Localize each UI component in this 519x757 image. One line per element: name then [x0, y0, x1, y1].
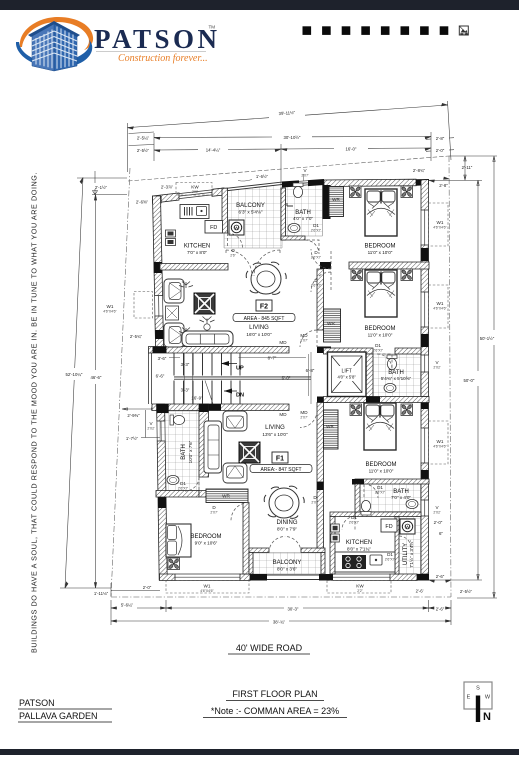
svg-text:2'6"X7': 2'6"X7': [311, 284, 322, 288]
carpet F1: [239, 442, 260, 463]
svg-text:7'1½" x 3'4½": 7'1½" x 3'4½": [408, 540, 414, 568]
svg-text:2'X7': 2'X7': [300, 416, 308, 420]
site boundary top: [128, 156, 449, 181]
bath F1 right door: [364, 484, 378, 498]
corridor wall piers at stair band: [317, 347, 331, 354]
bath F1 right left wall: [355, 484, 360, 512]
right vertical dim 50'-1.5: [457, 156, 497, 598]
logo blue swoosh: [16, 40, 92, 68]
svg-text:BUILDINGS DO HAVE A SOUL, THAT: BUILDINGS DO HAVE A SOUL, THAT COULD RES…: [30, 172, 39, 653]
kitchen F2 door O: [228, 233, 243, 248]
svg-text:PATSON: PATSON: [19, 698, 55, 708]
bath F1 right: bottom wall y514: [355, 512, 421, 517]
right side small dims: [434, 520, 444, 536]
svg-text:KITCHEN: KITCHEN: [346, 540, 372, 546]
svg-text:D1: D1: [377, 485, 383, 490]
kitchen F1 FD: [381, 519, 397, 532]
balcony F2 tiles: [224, 185, 282, 249]
top right corner black: [416, 179, 429, 186]
svg-text:8'-7": 8'-7": [268, 356, 277, 361]
svg-text:3'-3": 3'-3": [181, 388, 190, 393]
right dim 2'-11: [428, 156, 497, 181]
toilet bath F1 right: [361, 500, 371, 515]
svg-text:D1: D1: [180, 481, 186, 486]
svg-text:S: S: [476, 686, 480, 692]
wardrobes WR vertical: [329, 187, 344, 217]
svg-text:BEDROOM: BEDROOM: [364, 244, 395, 250]
svg-text:30'-3": 30'-3": [288, 607, 299, 612]
svg-text:AREA:- 847 SQFT: AREA:- 847 SQFT: [260, 467, 301, 473]
bath F2 door D1: [305, 240, 319, 254]
utility F1 tiles: [399, 517, 421, 575]
bed bedroom2: [365, 270, 397, 317]
balcony F2 double doors: [226, 250, 252, 276]
svg-text:6'-0": 6'-0": [282, 376, 291, 381]
bedroom4 door: [231, 503, 249, 521]
left wall mid (y316-347): [155, 316, 164, 347]
svg-text:UP: UP: [236, 366, 244, 372]
svg-text:F1: F1: [276, 456, 284, 463]
svg-text:MD: MD: [279, 340, 287, 345]
dim row2 30'-10.5: [154, 137, 431, 138]
bath top wall w/ V gap: [282, 180, 299, 187]
W1 right 2: [429, 285, 449, 328]
svg-text:1'-11⅛": 1'-11⅛": [94, 591, 109, 596]
svg-text:9'0" x 10'6": 9'0" x 10'6": [195, 541, 218, 546]
black squares row: [303, 26, 312, 35]
left wall pier blacks: [154, 262, 162, 273]
svg-text:2'6"X7': 2'6"X7': [311, 229, 322, 233]
svg-text:2X2: 2X2: [192, 190, 198, 194]
svg-text:40' WIDE ROAD: 40' WIDE ROAD: [236, 643, 303, 653]
svg-text:2'-6⅝": 2'-6⅝": [136, 200, 149, 205]
svg-text:8'0" x 3'6": 8'0" x 3'6": [277, 567, 297, 572]
svg-text:2'6"X7': 2'6"X7': [349, 521, 360, 525]
lift/bath band walls: [324, 348, 374, 354]
bath F2 right pier (tall black): [323, 185, 331, 219]
bedroom1 top wall: [324, 179, 416, 186]
svg-text:11'0" x 10'0": 11'0" x 10'0": [368, 250, 393, 255]
bottom dim row2: [111, 607, 451, 609]
svg-text:2'-8": 2'-8": [436, 136, 445, 141]
DN arrow: [224, 390, 237, 392]
bottom navy bar: [0, 749, 519, 755]
svg-text:W1: W1: [204, 584, 211, 589]
dim row1 extensions: [128, 101, 452, 172]
svg-text:D1: D1: [313, 223, 319, 228]
svg-text:1'-6½": 1'-6½": [256, 174, 269, 179]
svg-text:11'0" x 10'0": 11'0" x 10'0": [368, 333, 393, 338]
svg-text:13'6" x 10'0": 13'6" x 10'0": [262, 432, 288, 437]
MD F1 door: [300, 411, 317, 428]
svg-text:2'-6": 2'-6": [436, 607, 445, 612]
svg-text:2'-0": 2'-0": [434, 520, 443, 525]
stair walk line: [205, 381, 213, 405]
svg-text:F2: F2: [260, 304, 268, 311]
logo building: [28, 21, 80, 71]
bedroom1 door: [311, 249, 331, 269]
F2 sofa armchairs: [164, 279, 193, 347]
F1 flat label: [250, 452, 312, 473]
svg-text:N: N: [483, 711, 491, 723]
left wall lower (y410-580): [157, 404, 165, 421]
kitchen F2 counter: [180, 205, 209, 219]
bath F1 left tiles: [160, 411, 199, 491]
svg-text:2'X7': 2'X7': [311, 501, 319, 505]
svg-text:2'-5¼": 2'-5¼": [137, 136, 150, 141]
right top 2'-8.75 leader: [429, 177, 449, 182]
bath stairband door D1: [377, 354, 392, 369]
washing machine utility: [400, 519, 415, 534]
sofa chairs F2: [164, 279, 184, 303]
svg-text:2'-5½": 2'-5½": [460, 589, 473, 594]
svg-text:6'3" x 5'4⅛": 6'3" x 5'4⅛": [239, 210, 263, 215]
svg-text:5'4¾" x 5'10⅝": 5'4¾" x 5'10⅝": [381, 376, 412, 381]
W1 right 3: [429, 421, 449, 464]
wardrobe WR bedroom4: [206, 489, 248, 503]
svg-text:16'-0": 16'-0": [346, 147, 357, 152]
svg-text:2'6"X7': 2'6"X7': [178, 487, 189, 491]
dim row1 39'-11.5: [128, 105, 448, 128]
svg-text:BATH: BATH: [181, 444, 187, 460]
svg-text:FD: FD: [210, 225, 217, 231]
svg-text:2'X2': 2'X2': [433, 366, 441, 370]
svg-text:2'-9⅜": 2'-9⅜": [127, 413, 140, 418]
svg-text:2'-5¾": 2'-5¾": [130, 334, 143, 339]
bed bedroom3: [364, 403, 396, 450]
svg-text:BEDROOM: BEDROOM: [364, 326, 395, 332]
F1 sofa long: [204, 421, 222, 473]
svg-text:LIVING: LIVING: [249, 325, 269, 331]
svg-text:6'-8": 6'-8": [306, 368, 315, 373]
toilet bath F1 left: [170, 415, 185, 425]
svg-text:1'-7½": 1'-7½": [126, 436, 139, 441]
svg-text:4'6"X4'6": 4'6"X4'6": [433, 445, 447, 449]
basin bath F1 left: [167, 475, 179, 484]
svg-text:30'-10½": 30'-10½": [284, 135, 301, 140]
W1 window gap left wall: [155, 296, 163, 317]
svg-text:MD: MD: [300, 333, 308, 338]
svg-text:BALCONY: BALCONY: [273, 560, 302, 566]
svg-text:LIVING: LIVING: [265, 425, 285, 431]
kitchen F2 fridge boxes: [166, 230, 176, 237]
stair band bottom wall: [152, 404, 289, 411]
logo divider line: [96, 51, 206, 53]
plant near sofa: [200, 317, 215, 331]
bath F2: shower: [287, 203, 293, 206]
balcony F1 tiles: [253, 553, 321, 575]
W1 right 1: [429, 203, 449, 246]
basin bath F1 right: [406, 499, 418, 508]
bath F2 tiles: [286, 182, 323, 237]
svg-text:14'-4¼": 14'-4¼": [206, 148, 221, 153]
svg-text:PATSON: PATSON: [94, 24, 221, 54]
svg-text:16'0" x 10'0": 16'0" x 10'0": [246, 332, 272, 337]
washing machine balcony F2: [229, 220, 244, 235]
svg-text:FD: FD: [385, 524, 392, 530]
svg-text:2'X7': 2'X7': [301, 174, 309, 178]
stair band top wall: [149, 347, 290, 354]
svg-text:8'0" x 7'1¾": 8'0" x 7'1¾": [347, 547, 371, 552]
compass: [464, 682, 492, 723]
right vertical dim 50'-0: [428, 180, 482, 580]
bath F1 left bottom wall: [156, 491, 199, 498]
svg-text:KW: KW: [356, 584, 364, 589]
svg-text:2'-0": 2'-0": [143, 585, 152, 590]
site boundary bottom: [111, 596, 451, 598]
toilet bath F2: [293, 183, 303, 198]
plants at chairs: [179, 282, 193, 335]
balcony F1 side walls: [249, 553, 253, 575]
svg-text:D1: D1: [351, 515, 357, 520]
svg-text:7'0" x 4'0": 7'0" x 4'0": [391, 495, 411, 500]
svg-text:W1: W1: [437, 301, 444, 306]
svg-text:16'-9": 16'-9": [191, 396, 203, 401]
svg-text:MD: MD: [300, 410, 308, 415]
bedroom3 left wall: [317, 403, 324, 483]
bottom left 2'-0 dim: [111, 583, 160, 596]
svg-text:2'-6": 2'-6": [436, 574, 445, 579]
svg-text:WR: WR: [327, 321, 335, 326]
bath F1 right tiles: [360, 484, 421, 512]
svg-text:2'X7': 2'X7': [300, 339, 308, 343]
svg-text:2'-8": 2'-8": [439, 183, 448, 188]
site boundary right: [449, 156, 451, 597]
svg-text:2'-8¾": 2'-8¾": [413, 168, 426, 173]
svg-text:50'-0": 50'-0": [464, 378, 475, 383]
svg-text:7'0" x 8'0": 7'0" x 8'0": [187, 250, 207, 255]
lift shaft: [328, 352, 367, 397]
bottom dim row3: [111, 620, 451, 622]
kitchen/balcony divider: [222, 188, 228, 233]
top navy bar: [0, 0, 519, 10]
balcony parapet top: [224, 182, 282, 191]
svg-text:D1: D1: [375, 343, 381, 348]
svg-text:2'6"X7': 2'6"X7': [385, 558, 396, 562]
bedroom4 right wall: [243, 503, 249, 575]
utility left wall: [395, 517, 399, 575]
svg-text:W1: W1: [107, 304, 114, 309]
F2 round table: [246, 262, 286, 294]
bedroom2 door: [311, 272, 331, 292]
svg-text:2'X2': 2'X2': [433, 511, 441, 515]
bed bedroom1: [365, 189, 397, 236]
F2 carpet: [194, 293, 215, 314]
W1 left: [134, 292, 153, 319]
kitchen bottom wall F2: [160, 264, 228, 271]
svg-text:11'0" x 10'0": 11'0" x 10'0": [369, 469, 394, 474]
kitchen F1 left wall: [330, 517, 335, 575]
site boundary left: [111, 168, 130, 597]
UP arrow: [221, 363, 237, 365]
bottom right 2'-6 dim at wall: [429, 580, 451, 582]
left wall upper (y196-295): [153, 196, 163, 296]
svg-text:2'-1½": 2'-1½": [95, 185, 108, 190]
svg-text:D1: D1: [387, 552, 393, 557]
svg-text:4'6"X4'6": 4'6"X4'6": [433, 226, 447, 230]
bath F1 left walls: [199, 404, 209, 477]
V window gap left (bath F1): [157, 421, 165, 441]
balcony F1 double doors: [269, 537, 285, 553]
toilet common bath: [387, 355, 397, 370]
kitchen F1 counter: [335, 552, 395, 572]
svg-text:BALCONY: BALCONY: [236, 203, 265, 209]
svg-text:2'-3⅞": 2'-3⅞": [161, 185, 174, 190]
F1 round dining table: [264, 486, 304, 518]
svg-text:DN: DN: [236, 393, 244, 399]
svg-text:38'-¾": 38'-¾": [273, 620, 286, 625]
bath F1 right bottom wall: [355, 479, 429, 484]
svg-text:2'2": 2'2": [357, 589, 363, 593]
F2 flat label: [233, 300, 295, 322]
svg-text:PALLAVA GARDEN: PALLAVA GARDEN: [19, 711, 98, 721]
svg-text:2'-11": 2'-11": [462, 165, 473, 170]
stair mid landing rail: [174, 376, 311, 379]
basin common bath: [384, 383, 396, 392]
svg-text:2'X2': 2'X2': [147, 427, 155, 431]
svg-text:E: E: [467, 695, 471, 701]
svg-text:2'X7': 2'X7': [210, 511, 218, 515]
bed4 horizontal: [166, 524, 191, 557]
svg-text:6'-6": 6'-6": [156, 374, 165, 379]
bath F2 bottom wall: [281, 236, 305, 240]
svg-text:2'6"X7': 2'6"X7': [311, 256, 322, 260]
svg-text:W: W: [485, 695, 491, 701]
top wall left segment: [153, 193, 180, 203]
svg-text:2'6": 2'6": [230, 254, 236, 258]
svg-text:WR: WR: [332, 197, 340, 202]
svg-text:2'6"X7': 2'6"X7': [373, 349, 384, 353]
svg-text:KITCHEN: KITCHEN: [184, 244, 210, 250]
living F1 bottom wall + WR block: [199, 491, 209, 498]
svg-text:4'6"X4'6": 4'6"X4'6": [433, 307, 447, 311]
kitchen/utility doors F1: [342, 517, 355, 530]
stair treads: [174, 353, 240, 404]
broken image icon: [459, 26, 468, 35]
svg-text:52'-10¼": 52'-10¼": [66, 372, 83, 377]
left wall below V to bottom: [157, 441, 167, 580]
svg-text:5'-6¼": 5'-6¼": [121, 603, 134, 608]
svg-text:*Note :- COMMAN AREA = 23%: *Note :- COMMAN AREA = 23%: [211, 706, 339, 716]
KW window top dashed: [176, 183, 212, 196]
svg-text:3'-3": 3'-3": [181, 362, 190, 367]
W1 bottom: [166, 581, 249, 594]
living F2 right wall: [317, 269, 324, 330]
bottom wall: [160, 574, 176, 581]
svg-text:2'-5½": 2'-5½": [137, 148, 150, 153]
svg-text:46'-6": 46'-6": [91, 375, 102, 380]
svg-text:O: O: [231, 248, 235, 253]
logo orange swoosh: [20, 17, 93, 50]
dim row2/3 extensions: [129, 132, 432, 196]
svg-text:AREA - 845 SQFT: AREA - 845 SQFT: [244, 316, 285, 322]
svg-text:BEDROOM: BEDROOM: [365, 462, 396, 468]
kitchen F1 top wall: [330, 512, 355, 517]
bedroom1/2 divider wall: [320, 262, 331, 269]
basin bath F2: [288, 223, 300, 232]
svg-text:3'-6": 3'-6": [158, 356, 167, 361]
MD F2 door: [300, 330, 317, 347]
top-left 2'-1.5 dim: [77, 171, 127, 195]
stair band left thin wall: [149, 353, 152, 404]
svg-text:8'0" x 7'9": 8'0" x 7'9": [277, 527, 297, 532]
svg-text:KW: KW: [191, 185, 199, 190]
svg-text:6": 6": [439, 531, 443, 536]
kitchen F2 FD box: [205, 221, 223, 234]
svg-text:W1: W1: [437, 439, 444, 444]
svg-text:MD: MD: [279, 412, 287, 417]
svg-text:WR: WR: [326, 424, 334, 429]
left vertical dim 46'-6: [95, 195, 97, 588]
svg-text:4'0" x 5'8": 4'0" x 5'8": [338, 375, 357, 380]
svg-text:4'6"X4'6": 4'6"X4'6": [103, 310, 117, 314]
svg-text:2'-6': 2'-6': [416, 589, 424, 594]
svg-text:2'-0": 2'-0": [436, 148, 445, 153]
svg-text:50'-1½": 50'-1½": [480, 336, 495, 341]
svg-text:FIRST FLOOR PLAN: FIRST FLOOR PLAN: [232, 689, 317, 699]
svg-text:TM: TM: [209, 25, 216, 30]
KW window gap top: [179, 190, 212, 199]
F2 sofa 3-seater: [182, 317, 233, 347]
svg-text:4'0" x 7'0": 4'0" x 7'0": [293, 216, 313, 221]
stair dims: [169, 352, 311, 404]
top wall seg 2: [212, 188, 224, 196]
dim row3 14'-4.25 + 16'-0: [154, 148, 431, 150]
bath F2 left wall: [281, 188, 286, 240]
svg-text:4'6"X4'6": 4'6"X4'6": [200, 589, 214, 593]
right 2'-8 / 2'-0 small dims: [426, 138, 454, 152]
svg-text:DINING: DINING: [277, 520, 298, 526]
dining/balcony wall F1: [249, 548, 269, 553]
dining right wall stub: [317, 482, 324, 548]
svg-text:BEDROOM: BEDROOM: [190, 534, 221, 540]
bath stairband tiles: [373, 354, 421, 397]
svg-text:2'6"X7': 2'6"X7': [375, 491, 386, 495]
KW bottom: [327, 581, 391, 594]
svg-text:Construction forever...: Construction forever...: [118, 53, 208, 64]
left slant dim 52'-10.25: [65, 178, 83, 589]
right wall segments: [421, 180, 429, 211]
svg-text:WR: WR: [222, 494, 230, 499]
ceiling fans bedrooms: [350, 186, 362, 198]
bath F1 left door: [185, 477, 199, 491]
svg-text:W1: W1: [437, 220, 444, 225]
svg-text:10'0" x 7'6": 10'0" x 7'6": [188, 440, 193, 463]
